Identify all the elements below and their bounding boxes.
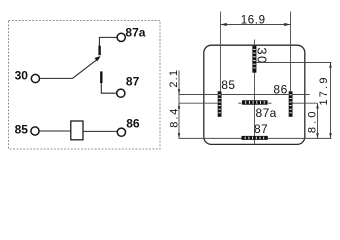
wire from terminal 85 to coil [40, 130, 71, 132]
dimension line 8.0 [317, 103, 319, 138]
left dimension line (2.1 / 8.4) [178, 71, 180, 139]
relay base outline (bottom view) [204, 45, 305, 144]
relay coil (rectangle) [71, 121, 83, 140]
svg-text:8.0: 8.0 [306, 108, 318, 133]
wire from coil to terminal 86 [83, 130, 117, 132]
dimension line 16.9 [221, 24, 291, 26]
svg-text:85: 85 [221, 78, 235, 92]
svg-text:30: 30 [15, 68, 29, 82]
pin 87 blade (hatched, horizontal) [242, 136, 268, 140]
svg-text:87a: 87a [256, 106, 277, 120]
reference line B (87a center level) [179, 102, 218, 104]
reference line C (pin 87 level) [179, 137, 242, 139]
armature arrowhead [95, 56, 101, 61]
fixed contact 87a (thick bar) [98, 46, 100, 56]
terminal circle 30 [31, 74, 39, 82]
armature (movable contact) [73, 58, 100, 79]
svg-text:86: 86 [126, 116, 140, 130]
svg-text:85: 85 [15, 122, 29, 136]
wire from contact 87a to terminal 87a [99, 37, 116, 45]
fixed contact 87 (thick bar) [100, 71, 102, 83]
svg-text:86: 86 [273, 82, 287, 96]
terminal circle 85 [31, 127, 39, 135]
svg-text:16.9: 16.9 [241, 15, 266, 27]
pin 87a blade (hatched, horizontal) [242, 100, 268, 104]
terminal circle 87a [117, 33, 125, 41]
extension line left (pin 85 center) [220, 12, 222, 92]
terminal circle 87 [117, 89, 125, 97]
reference line for 17.9 top (pin 30 level) [256, 62, 331, 64]
wire from terminal 30 to armature pivot [40, 77, 73, 79]
svg-text:87a: 87a [125, 25, 145, 39]
extension line right (pin 86 center) [290, 12, 292, 92]
pin 85 blade (hatched) [218, 91, 222, 117]
svg-text:2.1: 2.1 [168, 69, 180, 88]
center line through pins 30 / 87a / 87 [254, 73, 256, 144]
terminal circle 86 [117, 128, 125, 136]
svg-text:87: 87 [254, 122, 268, 136]
pin 86 blade (hatched) [289, 91, 293, 117]
svg-text:17.9: 17.9 [318, 75, 330, 105]
reference line A (pins 85/86 top level) [179, 94, 218, 96]
pin 30 blade (hatched) [252, 46, 256, 73]
svg-text:8.4: 8.4 [168, 107, 180, 128]
dimension line 17.9 [330, 63, 332, 139]
center extension stub above base [254, 40, 256, 47]
relay schematic dashed enclosure [9, 21, 161, 150]
wire from contact 87 to terminal 87 [101, 83, 116, 93]
svg-text:87: 87 [126, 75, 140, 89]
